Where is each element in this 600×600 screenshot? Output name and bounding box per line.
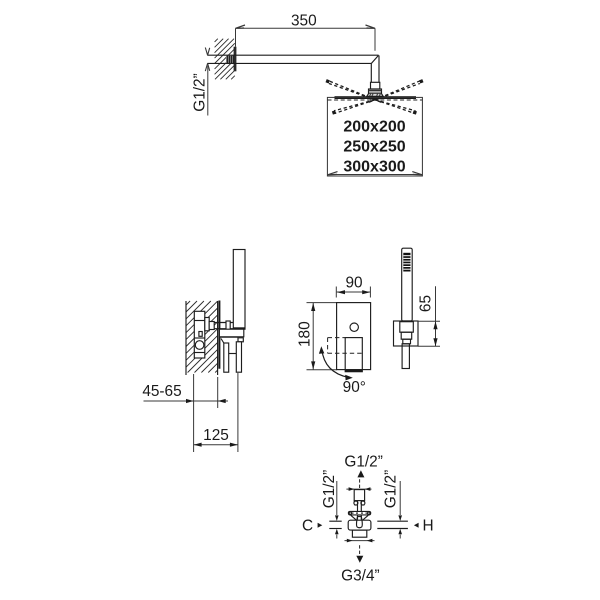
hand shower bracket (front view) xyxy=(394,321,419,346)
bracket clamp xyxy=(400,322,414,333)
svg-text:350: 350 xyxy=(291,12,317,29)
dim 45-65 line xyxy=(144,399,229,403)
svg-text:200x200: 200x200 xyxy=(343,119,405,136)
spray X arm upper-left xyxy=(328,81,381,103)
valve body xyxy=(348,520,371,530)
down arrow xyxy=(356,556,363,563)
valve top tube dim arrows xyxy=(346,487,371,491)
hand shower spray face stripes xyxy=(403,253,410,272)
svg-text:G1/2”: G1/2” xyxy=(321,470,338,509)
svg-text:45-65: 45-65 xyxy=(142,383,181,400)
H arrow xyxy=(414,523,419,528)
C arrow xyxy=(318,523,323,528)
shower arm flange xyxy=(234,47,237,72)
extension lines below side view xyxy=(194,373,238,452)
svg-text:90°: 90° xyxy=(343,379,366,396)
centerline dashes bottom xyxy=(359,545,361,554)
valve top tube xyxy=(354,490,364,501)
shower head connector nuts xyxy=(367,82,383,96)
svg-text:300x300: 300x300 xyxy=(343,158,405,175)
mixer handle (front view) xyxy=(345,338,362,372)
valve bottom cap xyxy=(352,530,366,537)
hand shower wand (front view) xyxy=(402,248,413,321)
shower head dashed width line xyxy=(328,99,423,101)
centerline dashes top xyxy=(359,479,361,488)
valve neck xyxy=(354,501,365,520)
mixer plate (side view) xyxy=(218,301,220,369)
diverter button xyxy=(350,323,358,331)
wand taper xyxy=(403,339,411,344)
svg-text:90: 90 xyxy=(345,275,362,292)
svg-text:G1/2”: G1/2” xyxy=(344,454,383,471)
hand shower wand (side view) xyxy=(233,250,245,330)
left port lines xyxy=(329,521,341,528)
spray X arm upper-right xyxy=(369,81,421,103)
dim 65 line xyxy=(418,286,440,346)
handle rotation arc xyxy=(322,350,349,378)
wall (top, hatched) xyxy=(215,39,235,80)
svg-text:250x250: 250x250 xyxy=(343,139,405,156)
left port leader + arrows xyxy=(335,481,339,539)
wand handle end xyxy=(402,344,409,369)
spray X arm lower-right xyxy=(370,98,416,113)
bracket nut xyxy=(401,332,412,339)
mixer valve body in wall (side view) xyxy=(194,311,205,358)
up arrow xyxy=(357,470,364,477)
head size box xyxy=(327,97,422,176)
svg-text:C: C xyxy=(302,518,313,535)
svg-text:G3/4”: G3/4” xyxy=(341,568,380,585)
svg-text:125: 125 xyxy=(203,427,229,444)
right port leader + arrows xyxy=(398,481,402,539)
valve supply pipe (side view) xyxy=(205,318,234,331)
svg-text:65: 65 xyxy=(418,295,435,312)
valve wing flange xyxy=(348,511,370,519)
wall (side view, hatched) xyxy=(186,301,218,373)
right port lines xyxy=(377,521,408,528)
dimension 350 line xyxy=(236,25,376,51)
valve bottom dim arrows xyxy=(345,539,375,543)
shower arm knurled nut xyxy=(226,56,234,64)
dim 180 line xyxy=(307,303,337,370)
svg-text:G1/2”: G1/2” xyxy=(192,73,209,112)
spray X arm lower-left xyxy=(334,98,380,113)
shower arm pipe xyxy=(207,55,379,82)
shower head plate (side profile) xyxy=(335,96,417,99)
dim 125 line xyxy=(194,443,238,447)
valve stem tip xyxy=(357,517,363,528)
mixer plate (front view) xyxy=(337,303,371,370)
G1/2 arrows (arm thread) xyxy=(205,48,209,116)
head size box width arrow xyxy=(328,172,423,175)
svg-text:H: H xyxy=(422,518,433,535)
svg-text:G1/2”: G1/2” xyxy=(382,470,399,509)
svg-text:180: 180 xyxy=(296,321,313,347)
wall boundary lines (side view) xyxy=(186,301,218,375)
mixer handle rotated position (dashed) xyxy=(328,338,363,354)
hand shower bracket (side view) xyxy=(219,329,243,372)
dim 90 line xyxy=(336,287,370,298)
